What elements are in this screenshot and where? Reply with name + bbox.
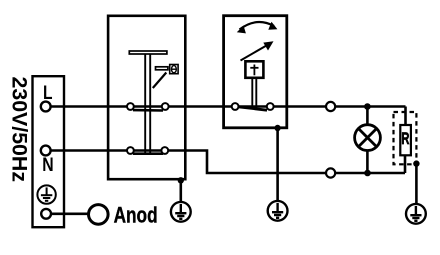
svg-text:230V/50Hz: 230V/50Hz bbox=[8, 77, 32, 183]
svg-text:L: L bbox=[43, 83, 53, 104]
svg-text:Anod: Anod bbox=[114, 203, 158, 228]
svg-text:N: N bbox=[42, 155, 53, 176]
svg-text:R: R bbox=[401, 129, 409, 148]
